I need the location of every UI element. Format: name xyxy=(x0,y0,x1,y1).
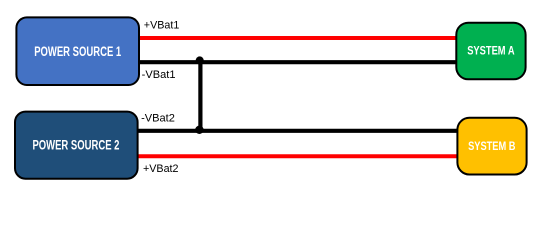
svg-text:POWER SOURCE 2: POWER SOURCE 2 xyxy=(32,138,119,153)
wire vertical tie between -VBat1 and -VBat2 xyxy=(198,62,202,131)
svg-text:+VBat1: +VBat1 xyxy=(144,20,180,32)
block SYSTEM B xyxy=(457,118,526,175)
svg-text:SYSTEM A: SYSTEM A xyxy=(467,44,515,58)
svg-text:-VBat2: -VBat2 xyxy=(141,113,175,125)
wire -VBat1 (black) xyxy=(139,60,458,64)
svg-text:POWER SOURCE 1: POWER SOURCE 1 xyxy=(34,44,121,59)
block POWER SOURCE 1 xyxy=(16,17,139,85)
wire +VBat2 (red) xyxy=(136,154,459,158)
wire -VBat2 (black) xyxy=(136,129,459,133)
wire +VBat1 (red) xyxy=(139,36,458,40)
junction dot on -VBat1 xyxy=(196,56,204,64)
svg-text:SYSTEM B: SYSTEM B xyxy=(468,139,515,153)
junction dot on -VBat2 xyxy=(195,126,203,134)
block SYSTEM A xyxy=(456,23,525,80)
svg-text:+VBat2: +VBat2 xyxy=(143,163,179,175)
svg-text:-VBat1: -VBat1 xyxy=(142,69,176,81)
block POWER SOURCE 2 xyxy=(15,112,138,179)
